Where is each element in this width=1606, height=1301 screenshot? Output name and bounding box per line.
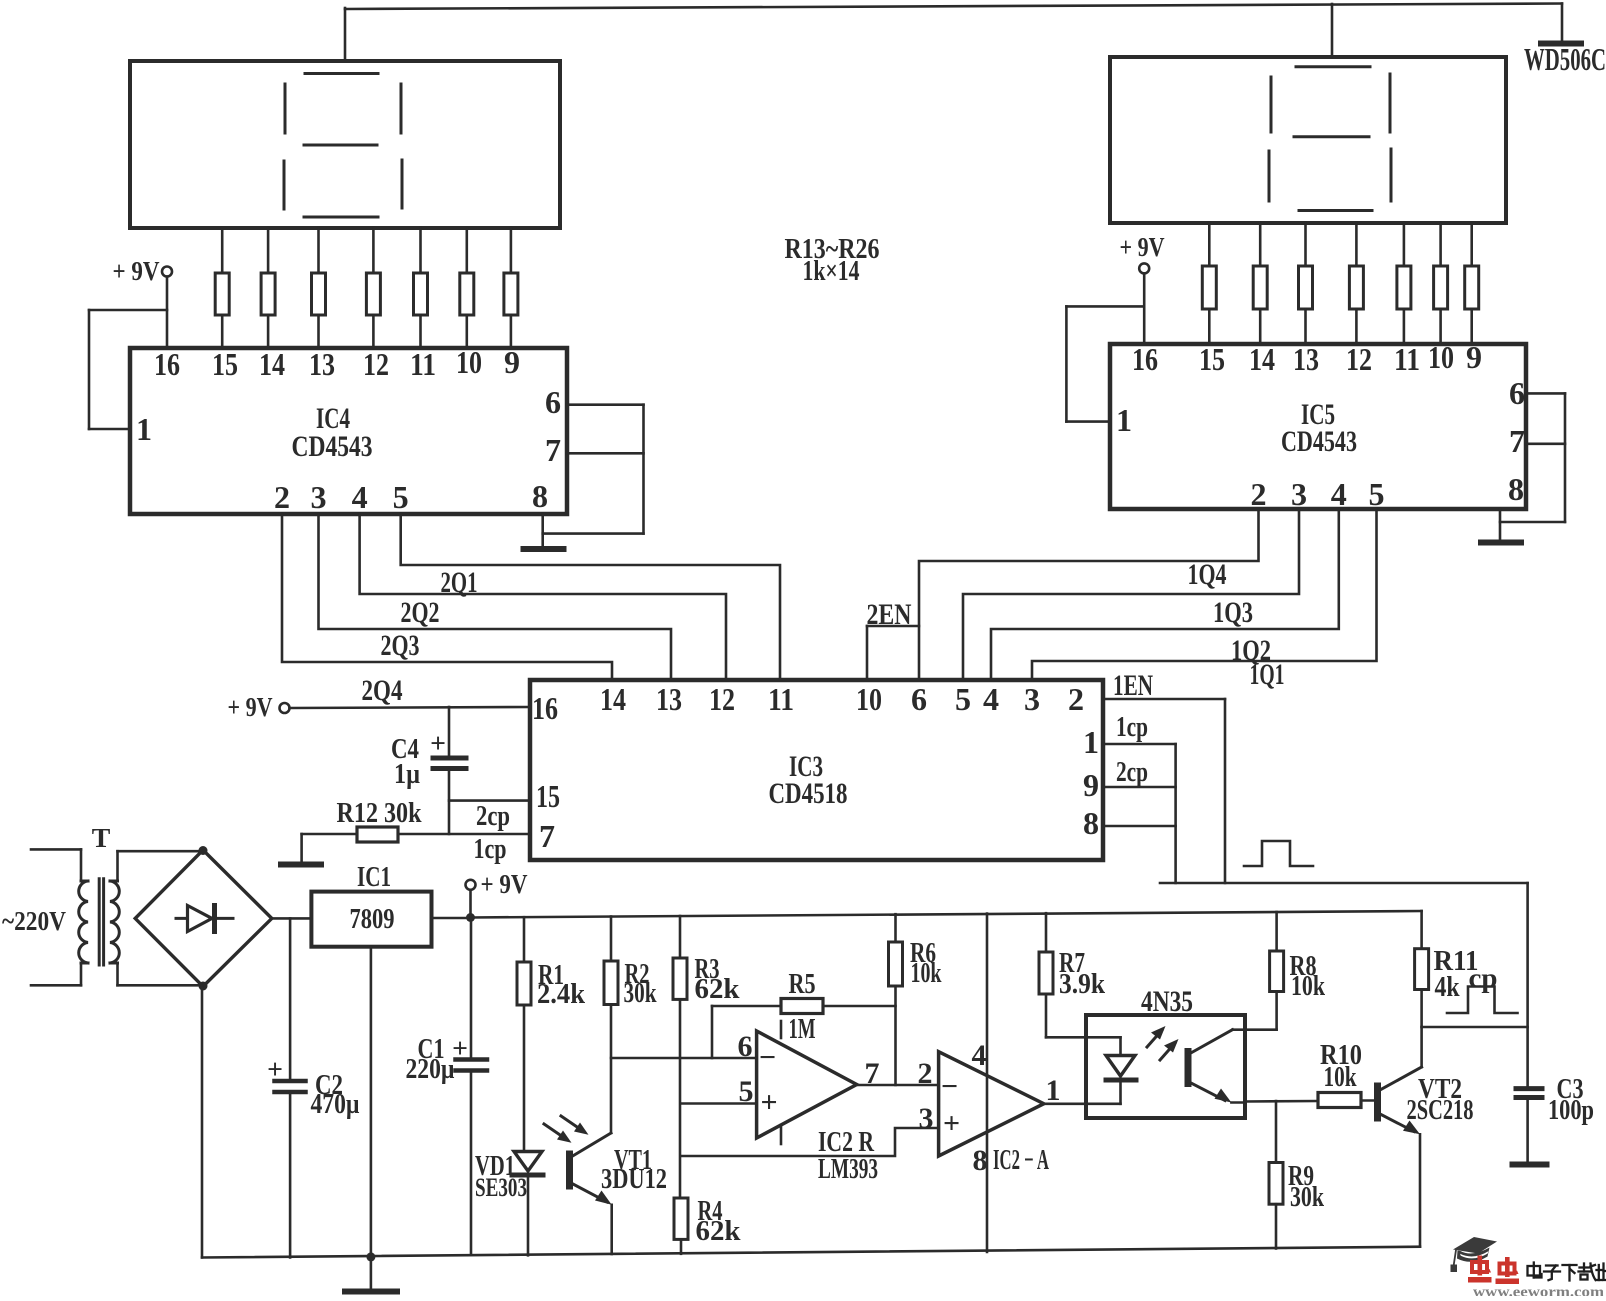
svg-text:6: 6 [911,681,927,717]
wire IC4 pins 6-7 to pin 8 node [543,405,644,534]
wire ground-rail stub [370,1257,373,1289]
IC U4 CD4543 (IC4) [130,344,567,515]
svg-text:1k×14: 1k×14 [803,255,860,287]
net 1Q4 wire (IC5 pin 2 to IC3 pin 6) [919,509,1259,680]
wire IC1 output to +9V node [432,917,471,920]
svg-text:4: 4 [1331,476,1347,512]
capacitor C1 [406,918,488,1255]
svg-text:2: 2 [1250,476,1266,512]
ground (IC5 pin 8) [1481,540,1521,546]
svg-text:1cp: 1cp [1116,711,1148,743]
svg-text:www.eeworm.com: www.eeworm.com [1473,1285,1605,1297]
svg-text:15: 15 [212,346,238,382]
svg-text:9: 9 [1083,767,1099,803]
svg-text:100p: 100p [1548,1094,1594,1126]
svg-text:3.9k: 3.9k [1059,968,1106,1000]
svg-text:+ 9V: + 9V [113,256,160,287]
ground (IC4 pin 8) [524,546,564,552]
svg-text:1M: 1M [789,1013,816,1045]
net 2EN label [867,598,912,631]
light arrows into VT1 [544,1116,589,1143]
capacitor C3 [1516,1073,1594,1162]
+9V power terminal (display DS1 side) [113,256,173,348]
label R13~R26 1k x14 value [785,233,880,287]
wire R12 to ground [300,834,303,862]
svg-text:3: 3 [1024,681,1040,717]
svg-text:6: 6 [1509,375,1525,411]
ground (main supply) [345,1289,397,1295]
svg-text:2Q2: 2Q2 [401,596,440,629]
+9V power terminal (display DS2 side) [1120,232,1165,344]
junction +9V node [466,913,475,922]
svg-text:13: 13 [309,346,335,382]
label WD506C [1524,41,1606,77]
net 1Q3 wire (IC5 pin 3 to IC3 pin 5) [963,509,1299,680]
light arrows inside 4N35 [1147,1026,1179,1060]
resistor R2 [604,917,657,1134]
svg-text:7: 7 [1509,423,1525,459]
resistor R7 [1039,913,1106,1037]
wire IC3 pin 1 [1103,743,1176,746]
svg-text:IC2 − A: IC2 − A [993,1144,1049,1176]
svg-text:1µ: 1µ [394,758,420,790]
svg-text:R5: R5 [789,968,816,1000]
ground (C3) [1513,1162,1547,1168]
7-segment display DS2 [1110,57,1506,223]
svg-text:15: 15 [536,778,560,814]
wire +9V to IC4 pin 1 [89,310,167,429]
svg-text:10k: 10k [1324,1061,1358,1093]
+9V power terminal (IC3 pin 16) [228,692,531,723]
svg-text:7: 7 [539,818,555,854]
svg-text:16: 16 [154,346,180,382]
svg-text:1: 1 [136,411,152,447]
svg-text:WD506C: WD506C [1524,41,1606,77]
svg-text:R12 30k: R12 30k [337,797,423,829]
label IC2 R LM393 [818,1126,878,1185]
svg-text:~220V: ~220V [2,906,66,937]
svg-text:1: 1 [1046,1074,1061,1107]
net 1cp label (IC3 left) [474,833,507,865]
svg-text:14: 14 [1249,341,1275,377]
label VD1 SE303 [475,1150,527,1202]
IC1 7809 regulator [311,861,431,947]
svg-text:16: 16 [532,690,558,726]
svg-text:3: 3 [1291,476,1307,512]
label VT2 2SC218 [1407,1073,1474,1126]
+9V power terminal (supply) [466,869,528,917]
net 1EN wire (IC3 right) [1103,699,1225,883]
svg-text:12: 12 [363,346,389,382]
wire +9V to IC5 pin 1 [1066,306,1144,421]
phototransistor inside 4N35 [1185,1030,1319,1103]
resistor R5 [712,968,896,1058]
wire pin 3 input [681,1128,939,1156]
svg-text:8: 8 [532,478,548,514]
resistor R23 [1349,223,1363,344]
resistor R20 [1202,223,1216,344]
clock pulse waveform icon (cp bus) [1244,841,1313,866]
svg-text:62k: 62k [695,973,741,1005]
svg-text:15: 15 [1199,341,1225,377]
svg-text:10k: 10k [911,957,943,989]
svg-text:62k: 62k [696,1215,742,1247]
svg-text:8: 8 [1083,805,1099,841]
svg-text:9: 9 [1466,339,1482,375]
svg-text:−: − [759,1041,776,1074]
wire IC3 pin 8 [1103,825,1176,828]
transistor VT2 [1374,1027,1422,1247]
wire IC1 ground pin [370,947,373,1257]
capacitor C2 [267,918,360,1257]
svg-text:13: 13 [656,681,682,717]
wire IC2-A pins 4 and 8 (power) [986,914,989,1253]
wire display DS1 to top rail [344,8,347,61]
net 1Q3 label [1213,596,1253,629]
resistor R10 [1318,1039,1375,1108]
wire IC4 pin 6 [567,403,644,406]
wire IC2-A output to 4N35 [1044,1103,1121,1106]
svg-text:1Q4: 1Q4 [1188,558,1227,591]
net 2Q2 label [401,596,440,629]
svg-text:4: 4 [983,681,999,717]
svg-text:2cp: 2cp [1116,756,1148,788]
photodiode VD1 [512,1152,543,1256]
svg-text:3DU12: 3DU12 [601,1163,667,1195]
svg-text:10: 10 [1428,339,1454,375]
resistor R13 [215,228,229,348]
wire R11 node to C3 node [1422,1026,1528,1029]
svg-text:8: 8 [973,1144,988,1177]
7-segment display DS1 [130,61,560,228]
svg-text:2: 2 [1068,681,1084,717]
resistor R18 [460,228,474,348]
net 1Q4 label [1188,558,1227,591]
net 2Q4 label [362,674,403,707]
svg-text:2Q4: 2Q4 [362,674,403,707]
resistor R16 [366,228,380,348]
resistor R4 [674,1195,741,1254]
net 1Q2 wire (IC5 pin 4 to IC3 pin 4) [991,509,1339,680]
svg-text:CD4543: CD4543 [292,430,373,463]
net 2cp label (IC3 left) [476,800,510,832]
label cp [1469,963,1498,994]
svg-text:+: + [430,728,446,759]
wire IC4 pin 7 [567,452,644,455]
wire IC5 pin 6 [1526,392,1565,395]
svg-text:1EN: 1EN [1113,669,1153,702]
net 1Q1 label [1250,658,1285,691]
svg-text:1: 1 [1116,402,1132,438]
wire IC4 pin 8 [541,514,544,547]
wire IC5 pin 8 [1499,509,1502,540]
wire non-inverting input (R3/R4 node to pin 5) [681,1102,757,1105]
IC U5 CD4543 (IC5) [1110,339,1526,512]
svg-text:+: + [943,1107,960,1140]
net 2Q3 label [381,629,420,662]
optocoupler 4N35 [1086,985,1245,1118]
svg-text:+: + [760,1086,777,1119]
resistor R17 [414,228,428,348]
svg-text:11: 11 [410,346,436,382]
svg-text:+: + [267,1054,283,1085]
net 2Q1 label [441,566,478,599]
label T (transformer) [92,823,111,854]
transformer T primary [31,849,88,985]
clock pulse waveform icon (cp output) [1447,987,1518,1014]
resistor R11 [1415,911,1479,1027]
net 2Q3 wire (IC4 pin 3 to IC3 pin 13) [319,514,672,680]
wire IC5 pin 7 [1526,442,1565,445]
wire IC3 pin 15 [449,799,530,802]
svg-text:2.4k: 2.4k [537,978,586,1010]
wire +9V rail [471,911,1422,918]
resistor R14 [261,228,275,348]
junction bridge top [199,846,208,855]
svg-text:2cp: 2cp [476,800,510,832]
comparator IC2-R (LM393) [738,1021,880,1144]
svg-text:30k: 30k [1290,1181,1325,1213]
resistor R6 [889,914,943,1085]
ground WD506C (top right) [1541,4,1581,44]
svg-text:470µ: 470µ [311,1088,360,1120]
transformer T secondary [110,851,203,985]
LED inside 4N35 [1106,1056,1136,1104]
net 2EN wire (IC3 pin 10 to pin 6 net) [867,626,919,680]
net 1Q1 wire (IC5 pin 5 to IC3 pin 3) [1032,509,1377,680]
svg-text:2EN: 2EN [867,598,912,631]
IC U3 CD4518 (IC3) [530,680,1103,860]
svg-text:+ 9V: + 9V [228,692,273,723]
svg-text:11: 11 [768,681,794,717]
net 1EN label [1113,669,1153,702]
transformer T core [99,879,103,965]
wire IC3 pins 1-9-8 junction [1174,744,1177,883]
svg-text:12: 12 [1346,341,1372,377]
svg-text:−: − [941,1070,958,1103]
wire R7 to LED anode [1046,1037,1121,1054]
comparator IC2-A [918,1039,1061,1177]
svg-text:11: 11 [1394,341,1420,377]
net 2Q2 wire (IC4 pin 4 to IC3 pin 12) [360,514,726,680]
svg-text:IC1: IC1 [357,861,391,893]
svg-text:SE303: SE303 [475,1172,527,1202]
svg-text:+ 9V: + 9V [1120,232,1165,263]
wire display DS2 to top rail [1331,4,1334,57]
svg-text:LM393: LM393 [818,1153,878,1185]
svg-text:4: 4 [352,479,368,515]
junction IC1 ground on rail [366,1252,375,1261]
resistor R26 [1465,223,1479,344]
svg-text:2Q3: 2Q3 [381,629,420,662]
svg-text:16: 16 [1132,341,1158,377]
resistor R1 [517,917,586,1150]
wire inverting input (R2/VT1 node to pin 6) [611,1057,757,1060]
svg-text:+ 9V: + 9V [481,869,528,900]
resistor R22 [1299,223,1313,344]
wire IC3 pin 9 [1103,786,1176,789]
svg-text:1cp: 1cp [474,833,507,865]
svg-text:9: 9 [504,344,520,380]
svg-text:5: 5 [1368,476,1384,512]
wire R9 to ground rail [1275,1204,1278,1248]
wire bottom ground rail [202,1247,1420,1258]
label IC2-A [993,1144,1049,1176]
capacitor C4 [391,707,466,834]
svg-text:10: 10 [456,344,482,380]
svg-text:1Q3: 1Q3 [1213,596,1253,629]
svg-text:cp: cp [1469,963,1498,994]
svg-text:CD4518: CD4518 [769,777,848,810]
wire top supply rail [345,4,1562,10]
svg-text:14: 14 [259,346,285,382]
svg-text:10: 10 [856,681,882,717]
svg-text:14: 14 [600,681,626,717]
svg-text:4k: 4k [1435,971,1461,1003]
label ~220V [2,906,66,937]
svg-text:4N35: 4N35 [1141,985,1193,1018]
junction bridge bottom [199,982,208,991]
svg-text:4: 4 [972,1039,987,1072]
wire IC2-R output to IC2-A input [857,1084,939,1087]
ground (R12) [281,862,321,868]
svg-text:1: 1 [1083,724,1099,760]
svg-text:3: 3 [310,479,326,515]
resistor R15 [312,228,326,348]
resistor R9 [1269,1101,1325,1213]
phototransistor VT1 [566,1133,612,1254]
net 1cp label (IC3 right) [1116,711,1148,743]
svg-text:12: 12 [709,681,735,717]
net 1Q2 label [1231,634,1271,667]
resistor R3 [673,916,740,1198]
wire cp bus to output stage [1160,883,1528,1087]
resistor R19 [504,228,518,348]
wire bridge output to IC1 [272,917,312,920]
net 2cp label (IC3 right) [1116,756,1148,788]
resistor R25 [1434,223,1448,344]
resistor R24 [1397,223,1411,344]
svg-text:6: 6 [545,384,561,420]
svg-text:8: 8 [1508,471,1524,507]
svg-text:T: T [92,823,111,854]
svg-text:2: 2 [918,1057,933,1090]
svg-text:2SC218: 2SC218 [1407,1094,1474,1126]
wire bridge negative to ground rail [201,986,204,1258]
svg-text:7809: 7809 [350,903,395,935]
svg-text:5: 5 [393,479,409,515]
bridge rectifier [135,850,272,987]
label VT1 3DU12 [601,1144,667,1195]
svg-text:5: 5 [955,681,971,717]
svg-text:1Q1: 1Q1 [1250,658,1285,691]
resistor R21 [1253,223,1267,344]
svg-text:10k: 10k [1291,970,1326,1002]
svg-text:CD4543: CD4543 [1281,425,1357,458]
svg-text:30k: 30k [624,977,658,1009]
svg-text:13: 13 [1293,341,1319,377]
svg-text:220µ: 220µ [406,1053,455,1085]
svg-text:2: 2 [274,479,290,515]
svg-text:7: 7 [545,432,561,468]
resistor R12 [302,797,530,842]
wire IC5 pins 6-7 to pin 8 node [1500,393,1565,522]
net 2Q4 wire (IC4 pin 2 to IC3 pin 14) [282,514,612,680]
svg-text:3: 3 [919,1102,934,1135]
resistor R8 [1270,912,1326,1030]
watermark [1451,1237,1606,1301]
net 2Q1 wire (IC4 pin 5 to IC3 pin 11) [401,514,780,680]
